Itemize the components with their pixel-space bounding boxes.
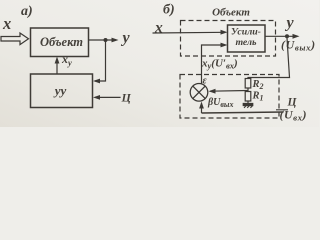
wire R1 to ground: [247, 101, 249, 103]
junction dot (output b): [285, 34, 289, 38]
wire y output: [89, 39, 117, 41]
resistor R1: [245, 92, 251, 102]
svg-text:у: у: [285, 15, 295, 32]
dashed box Объект (upper): [181, 21, 276, 57]
wire Ц input up into multiplier: [201, 104, 203, 114]
box Объект: [31, 28, 89, 57]
dashed box lower (УУ implementation): [180, 75, 279, 119]
wire bottom bus to Ц terminal: [202, 112, 284, 113]
wire x input to amplifier: [153, 31, 226, 34]
wire beta U to multiplier: [210, 90, 248, 93]
ground symbol: [243, 103, 253, 107]
svg-text:Объект: Объект: [40, 35, 83, 49]
svg-text:у: у: [121, 30, 131, 47]
wire feedback to УУ: [95, 40, 106, 81]
resistor R2: [245, 79, 251, 89]
svg-text:x: x: [154, 20, 163, 37]
wire output y (diagram b): [265, 35, 297, 37]
svg-text:x: x: [2, 14, 11, 33]
wire feedback to divider: [248, 38, 290, 79]
svg-text:Объект: Объект: [212, 7, 250, 19]
wire epsilon to amplifier second input: [202, 45, 226, 84]
multiplier circle: [190, 84, 208, 102]
wire R2-R1 junction: [247, 88, 249, 92]
box Усилитель: [228, 25, 266, 52]
terminal tick under Ц: [276, 109, 288, 111]
wire Ц input: [95, 96, 121, 98]
svg-text:Ц: Ц: [121, 91, 132, 105]
svg-text:уу: уу: [53, 83, 67, 98]
svg-text:Усили-: Усили-: [231, 27, 261, 38]
box УУ: [31, 74, 93, 108]
svg-text:б): б): [163, 3, 175, 18]
junction dot: [104, 38, 108, 42]
svg-text:а): а): [21, 4, 33, 19]
wire x_y control: [56, 59, 58, 74]
svg-text:тель: тель: [235, 37, 257, 48]
block arrow input x: [1, 33, 29, 45]
